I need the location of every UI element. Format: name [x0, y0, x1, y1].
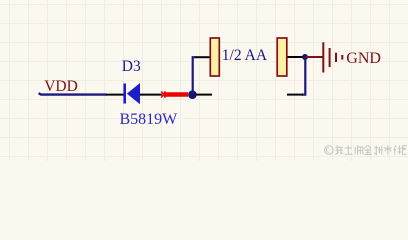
junction dot (right) [302, 54, 308, 60]
svg-text:B5819W: B5819W [120, 111, 179, 128]
wire riser from junction to battery [193, 57, 197, 94]
diode D3 right pin [140, 94, 162, 96]
GND bar 1 [322, 42, 324, 72]
bottom wire stub [287, 94, 303, 96]
red X error marker [161, 91, 165, 97]
wire stub right of junction [196, 94, 212, 96]
GND lead wire [305, 56, 323, 58]
svg-text:VDD: VDD [44, 78, 78, 95]
GND bar 4 [341, 55, 343, 60]
GND bar 3 [335, 53, 337, 62]
junction dot (main) [188, 90, 197, 99]
battery right pin [288, 56, 304, 58]
red wire segment [165, 92, 189, 97]
diode D3 triangle [127, 83, 140, 104]
svg-text:GND: GND [346, 50, 381, 67]
battery left pin [196, 56, 211, 58]
diode D3 cathode bar [123, 84, 126, 104]
svg-text:D3: D3 [122, 58, 141, 75]
battery plate left [210, 38, 219, 76]
GND bar 2 [329, 48, 331, 67]
wire VDD net [39, 93, 107, 94]
diode D3 left pin [106, 94, 124, 96]
wire down from right junction [302, 57, 305, 95]
watermark [325, 145, 407, 154]
svg-text:1/2 AA: 1/2 AA [222, 47, 268, 64]
battery plate right [277, 38, 287, 76]
